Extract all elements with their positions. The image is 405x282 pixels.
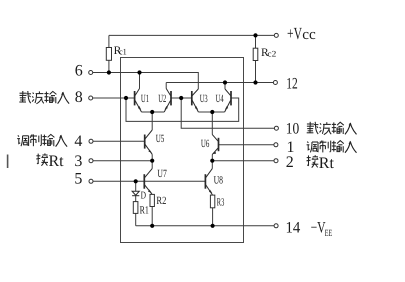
svg-text:U5: U5: [156, 133, 165, 145]
transistor U8: [205, 169, 212, 196]
label -VEE: [311, 220, 333, 240]
svg-text:U7: U7: [157, 168, 167, 180]
svg-text:12: 12: [286, 75, 298, 92]
transistor U3: [192, 89, 199, 112]
svg-text:5: 5: [74, 170, 82, 187]
label Rc1: [114, 45, 127, 57]
resistor R1: [133, 202, 138, 214]
svg-text:cc: cc: [302, 27, 316, 43]
wire: VEE rail to pin 14: [136, 225, 274, 227]
resistor Rc2: [253, 48, 258, 60]
svg-text:3: 3: [74, 153, 82, 170]
terminal pin 8: [89, 96, 93, 100]
wire: U7 collector vertical: [151, 161, 153, 169]
junction dot diode branch: [134, 179, 138, 183]
wire: +Vcc top rail: [109, 34, 274, 36]
svg-text:4: 4: [74, 133, 82, 150]
wire: U1-U2 emitter join: [142, 111, 165, 113]
wire: R1 bottom stub: [135, 213, 137, 225]
junction dot pin8 cross: [124, 96, 128, 100]
wire: diode branch stub: [135, 181, 137, 191]
junction dot pin2/U6 emitter: [210, 159, 214, 163]
terminal pin 6: [89, 71, 93, 75]
terminal pin 2: [274, 159, 278, 163]
wire: diode to R1 stub: [135, 196, 137, 202]
svg-text:c2: c2: [267, 49, 276, 59]
wire: U6 collector vertical: [211, 112, 213, 135]
resistor R2: [150, 194, 154, 206]
text: left modulation input 调制输入: [17, 134, 67, 146]
IC package boundary box: [121, 58, 244, 243]
text: left carrier input 载波输入: [19, 91, 69, 104]
junction dot pin3/U5 emitter: [150, 159, 154, 163]
svg-text:2: 2: [286, 154, 294, 171]
junction dot U1 collector/pin6: [137, 70, 141, 74]
svg-text:U8: U8: [214, 174, 224, 186]
wire: U8 collector vertical: [211, 161, 213, 169]
svg-text:R1: R1: [140, 204, 149, 216]
wire: pin8 cross-coupling to U4 base: [126, 98, 239, 121]
wire: U5 emitter vertical: [151, 154, 153, 160]
label Rc2: [261, 47, 276, 59]
wire: pin 2 from U6 emitter node: [212, 160, 274, 162]
svg-text:−V: −V: [311, 220, 326, 237]
scan artifact left edge: [7, 155, 9, 169]
wire: Rc1 top stub: [108, 35, 110, 47]
text: right carrier input 载波输入: [307, 122, 357, 135]
label +Vcc: [287, 24, 316, 43]
junction dot U4 collector/pin12: [223, 80, 227, 84]
junction dot Rc1/pin6: [107, 70, 111, 74]
diode D: [132, 191, 139, 196]
svg-text:10: 10: [286, 121, 300, 138]
wire: Rc1 bottom stub: [108, 60, 110, 72]
svg-text:U2: U2: [158, 93, 166, 105]
wire: Rc2 bottom stub: [255, 61, 257, 83]
junction dot U1-U2 emitters: [150, 110, 154, 114]
svg-text:Rt: Rt: [319, 155, 335, 172]
wire: U3-U4 emitter join: [198, 111, 224, 113]
wire: U4 collector vertical: [224, 83, 226, 90]
junction dot Rc2/pin12: [253, 80, 257, 84]
svg-text:+V: +V: [287, 24, 302, 43]
text: left connect Rt 接Rt: [36, 153, 64, 170]
junction dot R3/VEE rail: [211, 224, 215, 228]
svg-text:8: 8: [75, 89, 83, 106]
wire: Rc2 top stub: [255, 35, 257, 48]
transistor U2: [164, 89, 171, 113]
junction dot R2/VEE rail: [150, 224, 154, 228]
svg-text:14: 14: [286, 220, 301, 237]
wire: U5 collector vertical: [151, 112, 153, 130]
wire: R2 bottom stub: [151, 207, 153, 226]
junction dot U3-U4 emitters: [210, 110, 214, 114]
svg-text:U3: U3: [200, 93, 208, 105]
terminal +Vcc: [274, 33, 278, 37]
svg-text:R3: R3: [217, 197, 225, 209]
transistor U5: [145, 130, 153, 154]
resistor Rc1: [106, 48, 111, 61]
svg-text:6: 6: [75, 62, 83, 79]
svg-text:D: D: [141, 191, 147, 202]
svg-text:U6: U6: [201, 138, 210, 150]
junction dot Rc2/top rail: [253, 33, 257, 37]
wire: U2 collector vertical: [165, 83, 167, 89]
terminal pin 14: [274, 224, 278, 228]
terminal pin 12: [273, 81, 277, 85]
text: right modulation input 调制输入: [307, 141, 357, 153]
terminal pin 5: [89, 179, 93, 183]
transistor U6: [212, 135, 218, 155]
wire: R3 bottom stub: [212, 208, 214, 226]
wire: U2-U3 base tie: [172, 97, 192, 99]
resistor R3: [210, 195, 214, 208]
wire: pin 12 horizontal: [166, 82, 273, 84]
svg-text:c1: c1: [119, 46, 127, 56]
terminal pin 10: [274, 126, 278, 130]
wire: pin 3 to U5 emitter node: [93, 160, 152, 162]
svg-text:R2: R2: [156, 195, 166, 207]
terminal pin 3: [89, 159, 93, 163]
wire: U1 collector vertical: [139, 73, 141, 89]
wire: U6 emitter vertical: [211, 154, 213, 160]
transistor U4: [225, 89, 231, 112]
wire: pin 10 from base tie down and right: [181, 98, 274, 128]
transistor U1: [135, 89, 142, 113]
transistor U7: [144, 169, 152, 195]
terminal pin 1: [274, 143, 278, 147]
wire: pin 5 bias line through U7 base to U8 base: [93, 180, 205, 182]
text: right connect Rt 接Rt: [307, 155, 335, 172]
svg-text:Rt: Rt: [49, 153, 65, 170]
svg-text:U1: U1: [141, 93, 149, 105]
terminal pin 4: [89, 139, 93, 143]
wire: pin 4 to U5 base: [93, 140, 144, 142]
svg-text:U4: U4: [216, 93, 224, 105]
junction dot pin10 base tie: [179, 96, 183, 100]
wire: pin 6 horizontal to U3 collector corner: [93, 73, 199, 90]
wire: pin 8 base wire to U1: [93, 97, 134, 99]
svg-text:EE: EE: [325, 229, 333, 239]
wire: pin 1 to U6 base: [219, 144, 274, 146]
